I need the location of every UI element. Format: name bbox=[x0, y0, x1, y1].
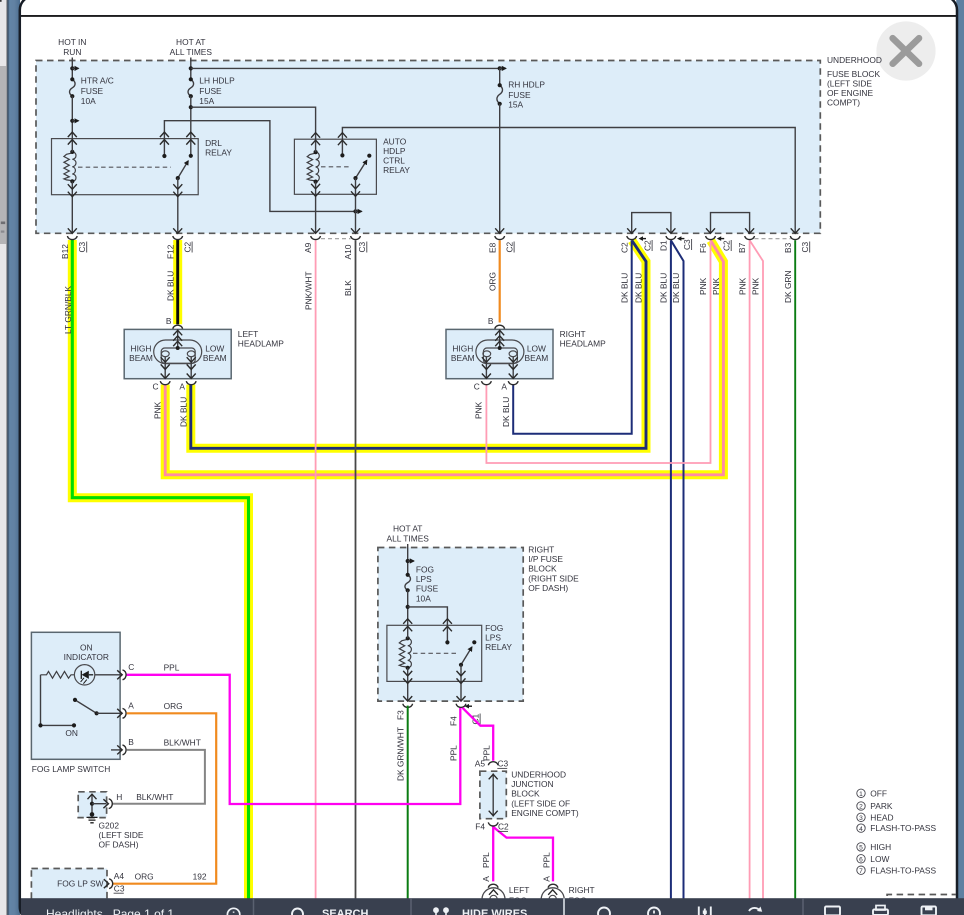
wire RH HDLP fuse vertical bbox=[499, 68, 501, 85]
label C3 bbox=[114, 883, 125, 893]
svg-text:FLASH-TO-PASS: FLASH-TO-PASS bbox=[870, 823, 936, 833]
connector A5/C3 bbox=[475, 759, 509, 769]
high beam bulb bbox=[161, 351, 169, 357]
junction block internal arrow bbox=[489, 774, 498, 817]
svg-text:BEAM: BEAM bbox=[203, 353, 227, 363]
svg-text:UNDERHOOD: UNDERHOOD bbox=[511, 770, 566, 780]
wire ORG from switch A bbox=[113, 713, 216, 883]
label C3 bbox=[800, 241, 810, 252]
B pin stub bbox=[499, 329, 501, 348]
right headlamp inner shell bbox=[483, 348, 517, 363]
svg-text:FOG: FOG bbox=[485, 623, 503, 633]
dashed link A9-A10 bbox=[321, 238, 351, 240]
svg-text:A: A bbox=[501, 382, 507, 392]
svg-text:A: A bbox=[541, 876, 551, 882]
svg-text:RELAY: RELAY bbox=[383, 165, 410, 175]
svg-text:BLK/WHT: BLK/WHT bbox=[164, 737, 201, 747]
connector D1/C3 bbox=[666, 228, 684, 241]
connector arcs below C and A bbox=[160, 381, 170, 385]
left fog lamp bbox=[482, 884, 529, 911]
svg-text:OF DASH): OF DASH) bbox=[528, 583, 568, 593]
svg-text:FLASH-TO-PASS: FLASH-TO-PASS bbox=[870, 865, 936, 875]
svg-text:LPS: LPS bbox=[416, 574, 432, 584]
wire PNK/WHT (A9) bbox=[315, 240, 317, 899]
svg-text:10A: 10A bbox=[416, 593, 431, 603]
branch to relay pin2 bbox=[406, 605, 448, 625]
svg-text:AUTO: AUTO bbox=[383, 136, 407, 146]
svg-text:Headlights Page 1 of 1: Headlights Page 1 of 1 bbox=[46, 907, 174, 915]
svg-text:HOT AT: HOT AT bbox=[176, 37, 205, 47]
label C1 bbox=[470, 713, 480, 724]
svg-text:H: H bbox=[116, 792, 122, 802]
svg-text:DRL: DRL bbox=[205, 138, 222, 148]
svg-text:F4: F4 bbox=[448, 716, 458, 726]
header divider line bbox=[21, 15, 956, 17]
wire PPL switch C loop to F4 bbox=[127, 675, 461, 804]
low beam bulb bbox=[187, 351, 195, 357]
svg-text:FUSE: FUSE bbox=[81, 86, 104, 96]
svg-text:LOW: LOW bbox=[205, 343, 224, 353]
svg-text:ORG: ORG bbox=[135, 872, 154, 882]
left headlamp stadium bbox=[154, 340, 202, 364]
svg-text:5: 5 bbox=[859, 845, 863, 852]
underhood fuse block (dashed box) bbox=[36, 61, 820, 234]
svg-text:B3: B3 bbox=[783, 242, 793, 253]
ON contact branch bbox=[38, 723, 76, 727]
feed to RH fuse: horizontal at y=68.4 bbox=[189, 66, 506, 70]
wire PPL junction to right fog bbox=[494, 827, 553, 881]
svg-text:C: C bbox=[474, 382, 480, 392]
right headlamp box bbox=[446, 329, 553, 378]
svg-text:RUN: RUN bbox=[63, 47, 81, 57]
connector B7 bbox=[745, 228, 755, 239]
item 5 HIGH bbox=[857, 843, 865, 851]
DRL switch arm bbox=[176, 161, 189, 180]
left headlamp inner shell bbox=[161, 348, 195, 363]
svg-text:15A: 15A bbox=[199, 96, 214, 106]
svg-text:INDICATOR: INDICATOR bbox=[64, 652, 109, 662]
connector F6/C2 bbox=[706, 228, 725, 241]
B pin stub bbox=[177, 329, 179, 348]
svg-text:7: 7 bbox=[859, 868, 863, 875]
fuse FOG LPS 10A bbox=[405, 573, 411, 593]
svg-text:C3: C3 bbox=[682, 239, 692, 250]
svg-text:DK BLU: DK BLU bbox=[179, 397, 189, 427]
item 2 PARK bbox=[857, 802, 865, 810]
AUTO output wire to A10 bbox=[355, 178, 357, 233]
svg-text:ALL TIMES: ALL TIMES bbox=[170, 47, 213, 57]
svg-text:RELAY: RELAY bbox=[205, 148, 232, 158]
auto hdlp ctrl relay box bbox=[294, 139, 376, 194]
bottom right partial dashed box bbox=[887, 895, 956, 908]
svg-text:LT GRN/BLK: LT GRN/BLK bbox=[63, 285, 73, 334]
svg-text:PARK: PARK bbox=[870, 801, 893, 811]
svg-text:FUSE: FUSE bbox=[508, 90, 531, 100]
svg-text:4: 4 bbox=[859, 826, 863, 833]
wire ORG (E8 to right headlamp B) bbox=[499, 240, 501, 322]
svg-text:C2: C2 bbox=[619, 242, 629, 253]
wire below HTR fuse to DRL relay bbox=[71, 96, 73, 138]
svg-text:FOG: FOG bbox=[416, 565, 434, 575]
svg-text:SEARCH: SEARCH bbox=[322, 908, 369, 915]
DRL pin3 stub and contact dot bbox=[189, 139, 193, 158]
connector arcs below C and A bbox=[482, 381, 492, 385]
wire PNK hl core bbox=[165, 241, 723, 475]
svg-text:LOW: LOW bbox=[527, 343, 546, 353]
svg-text:PNK: PNK bbox=[152, 401, 162, 419]
wire DK GRN (B3) bbox=[794, 240, 796, 899]
svg-text:PNK: PNK bbox=[751, 277, 761, 295]
svg-text:RIGHT: RIGHT bbox=[528, 545, 554, 555]
left headlamp box bbox=[124, 329, 231, 378]
tap dot+arrow at 120.8 bbox=[70, 119, 78, 123]
connector B12/C3 bbox=[67, 228, 77, 239]
connector F3 bbox=[403, 696, 413, 707]
FOG switch contact dot bbox=[472, 640, 476, 644]
bridge loop C2-D1 bbox=[632, 213, 671, 233]
wire PNK thin pair (B7) bbox=[749, 240, 751, 899]
connector A9 bbox=[311, 228, 321, 239]
wire DK BLU hl core bbox=[191, 241, 646, 449]
AUTO pin2 stub and dot bbox=[340, 139, 344, 157]
sidebar blue strips bbox=[0, 0, 1, 1]
dashed link B7-B3 bbox=[755, 238, 791, 240]
wire PPL junction to left fog bbox=[492, 827, 494, 882]
wire LED to C pin bbox=[95, 674, 122, 676]
DRL output wire to F12 bbox=[177, 178, 179, 233]
wire BLK (A10) bbox=[355, 240, 357, 899]
FOG output wire bbox=[460, 665, 462, 701]
svg-text:PPL: PPL bbox=[448, 745, 458, 761]
wire HOT IN RUN vertical bbox=[71, 58, 73, 81]
svg-text:HIGH: HIGH bbox=[452, 343, 473, 353]
svg-text:F12: F12 bbox=[165, 244, 175, 259]
connector arc above B bbox=[173, 325, 183, 329]
svg-text:DK GRN: DK GRN bbox=[783, 270, 793, 303]
svg-text:RELAY: RELAY bbox=[485, 642, 512, 652]
ON indicator LED circle bbox=[74, 665, 94, 685]
connector E8/C2 bbox=[495, 228, 505, 239]
tap dot+arrow at 68.4 bbox=[70, 66, 78, 70]
svg-text:C3: C3 bbox=[114, 883, 125, 893]
svg-text:E8: E8 bbox=[487, 242, 497, 253]
FOG coil pin wires bbox=[407, 625, 409, 701]
relay box boundary chevrons bbox=[403, 619, 412, 624]
svg-text:HOT IN: HOT IN bbox=[58, 37, 86, 47]
svg-text:C: C bbox=[153, 382, 159, 392]
svg-text:BEAM: BEAM bbox=[525, 353, 549, 363]
svg-text:OFF: OFF bbox=[870, 788, 887, 798]
svg-text:F6: F6 bbox=[698, 243, 708, 253]
connector arc above B bbox=[495, 325, 505, 329]
svg-text:10A: 10A bbox=[81, 96, 96, 106]
item 4 FLASH-TO-PASS bbox=[857, 824, 865, 832]
svg-text:B: B bbox=[128, 737, 134, 747]
svg-text:DK BLU: DK BLU bbox=[634, 273, 644, 303]
wire DK BLU (F12) core bbox=[176, 240, 179, 324]
fuse LH HDLP 15A bbox=[188, 77, 194, 98]
svg-text:B: B bbox=[488, 316, 494, 326]
svg-text:A: A bbox=[179, 382, 185, 392]
wire DK BLU (F12) highlight band bbox=[173, 240, 182, 324]
connector F4/C1 bbox=[456, 696, 472, 708]
connector A10/C3 bbox=[351, 228, 361, 239]
wire DK BLU thin pair (D1/C3) bbox=[670, 240, 672, 899]
AUTO coil bbox=[307, 150, 319, 184]
svg-text:LEFT: LEFT bbox=[238, 329, 258, 339]
label C2 bbox=[504, 241, 514, 252]
svg-text:PNK: PNK bbox=[737, 277, 747, 295]
LED symbol bbox=[82, 671, 89, 679]
wire PPL F4 split to junction block bbox=[463, 708, 494, 761]
tap dot+arrow bbox=[406, 559, 414, 563]
svg-text:PPL: PPL bbox=[481, 852, 491, 868]
svg-text:PPL: PPL bbox=[164, 662, 180, 672]
svg-text:ALL TIMES: ALL TIMES bbox=[387, 534, 430, 544]
left scrollbar strip bbox=[0, 0, 6, 915]
left rail bbox=[40, 675, 42, 726]
DRL coil pin wires bbox=[71, 139, 73, 233]
FOG relay coil bbox=[399, 636, 411, 670]
svg-text:C2: C2 bbox=[721, 240, 731, 251]
svg-text:D1: D1 bbox=[658, 240, 668, 251]
svg-text:(LEFT SIDE: (LEFT SIDE bbox=[99, 830, 144, 840]
wire PNK (headlamp C to F6) highlight band bbox=[165, 241, 723, 475]
fog lps relay box bbox=[387, 625, 482, 681]
ground stub and arrow bbox=[91, 795, 93, 815]
svg-text:UNDERHOOD: UNDERHOOD bbox=[827, 55, 882, 65]
high beam bulb bbox=[483, 351, 491, 357]
right fog lamp bbox=[541, 884, 594, 911]
svg-text:(LEFT SIDE: (LEFT SIDE bbox=[827, 78, 872, 88]
svg-text:HIGH: HIGH bbox=[131, 343, 152, 353]
wire into fog fuse bbox=[407, 544, 409, 576]
wire B pin stub bbox=[111, 749, 122, 751]
svg-text:C2: C2 bbox=[498, 822, 509, 832]
svg-text:DK BLU: DK BLU bbox=[501, 397, 511, 427]
svg-text:C2: C2 bbox=[642, 240, 652, 251]
svg-text:I/P FUSE: I/P FUSE bbox=[528, 554, 563, 564]
svg-text:A5: A5 bbox=[475, 759, 486, 769]
fuse RH HDLP 15A bbox=[497, 83, 503, 106]
DRL dashed actuator line bbox=[78, 166, 171, 168]
svg-text:(LEFT SIDE OF: (LEFT SIDE OF bbox=[511, 798, 570, 808]
indicator resistor zigzag bbox=[41, 671, 75, 678]
connector C2/C2 bbox=[627, 228, 646, 241]
label C3 bbox=[357, 241, 367, 252]
svg-text:FOG LAMP SWITCH: FOG LAMP SWITCH bbox=[32, 764, 110, 774]
svg-text:ON: ON bbox=[80, 643, 93, 653]
svg-text:A: A bbox=[128, 701, 134, 711]
low beam bulb bbox=[509, 351, 517, 357]
wire below LH fuse to DRL relay pin bbox=[190, 96, 192, 138]
AUTO dashed actuator line bbox=[321, 166, 351, 168]
svg-text:RIGHT: RIGHT bbox=[560, 329, 586, 339]
svg-text:ON: ON bbox=[65, 728, 78, 738]
svg-text:DK BLU: DK BLU bbox=[619, 273, 629, 303]
wire DK BLU thin (C2 to right headlamp A) bbox=[513, 240, 632, 433]
svg-text:3: 3 bbox=[859, 815, 863, 822]
wire DK GRN/WHT (F3 down) bbox=[407, 706, 409, 899]
svg-text:BLOCK: BLOCK bbox=[528, 564, 557, 574]
svg-text:B12: B12 bbox=[60, 244, 70, 259]
svg-text:C3: C3 bbox=[498, 759, 509, 769]
svg-text:BLK/WHT: BLK/WHT bbox=[136, 792, 173, 802]
svg-text:C3: C3 bbox=[800, 241, 810, 252]
svg-text:HDLP: HDLP bbox=[383, 146, 406, 156]
svg-text:BEAM: BEAM bbox=[451, 353, 475, 363]
DRL relay box bbox=[52, 139, 199, 195]
wire DRL pin2 feed loop bbox=[164, 121, 355, 212]
FOG dashed actuator line bbox=[413, 652, 456, 654]
label C2 bbox=[182, 241, 192, 252]
ground bars bbox=[87, 817, 98, 822]
svg-text:PNK: PNK bbox=[698, 277, 708, 295]
label C2 bbox=[721, 240, 731, 251]
item 6 LOW bbox=[857, 855, 865, 863]
svg-text:C: C bbox=[128, 662, 134, 672]
svg-text:LOW: LOW bbox=[870, 854, 889, 864]
bridge loop F6-B7 bbox=[711, 213, 750, 233]
svg-text:(RIGHT SIDE: (RIGHT SIDE bbox=[528, 573, 579, 583]
bulb output stubs bbox=[165, 357, 191, 379]
item 1 OFF bbox=[857, 789, 865, 797]
AUTO coil pin wires bbox=[315, 139, 317, 233]
svg-text:B7: B7 bbox=[737, 242, 747, 253]
svg-text:DK BLU: DK BLU bbox=[659, 273, 669, 303]
svg-text:A10: A10 bbox=[343, 244, 353, 259]
svg-text:BLOCK: BLOCK bbox=[511, 789, 540, 799]
junction dot+arrow on A10 wire bbox=[353, 209, 361, 213]
wire HOT AT ALL TIMES vertical bbox=[190, 58, 192, 81]
right headlamp stadium bbox=[476, 340, 524, 364]
wire BLK/WHT from switch B bbox=[112, 750, 205, 804]
svg-text:HEADLAMP: HEADLAMP bbox=[238, 339, 284, 349]
svg-text:C3: C3 bbox=[357, 241, 367, 252]
svg-text:BEAM: BEAM bbox=[129, 353, 153, 363]
wire PNK thin (F6 to right headlamp C) bbox=[486, 240, 710, 463]
wire RH fuse down to E8 bbox=[499, 104, 501, 233]
svg-text:LH HDLP: LH HDLP bbox=[199, 76, 235, 86]
svg-text:PNK/WHT: PNK/WHT bbox=[303, 271, 313, 310]
AUTO switch arm bbox=[353, 160, 366, 180]
pin chevrons and arcs C A B bbox=[117, 670, 122, 679]
svg-text:HOT AT: HOT AT bbox=[393, 523, 422, 533]
svg-text:C2: C2 bbox=[504, 241, 514, 252]
G202 ground box (dashed) bbox=[78, 792, 106, 818]
connector F12/C2 bbox=[173, 228, 183, 239]
svg-text:HEADLAMP: HEADLAMP bbox=[560, 339, 606, 349]
fuse HTR A/C 10A bbox=[70, 77, 76, 98]
svg-text:DK BLU: DK BLU bbox=[165, 271, 175, 301]
wire DK BLU (headlamp A to C2) highlight band bbox=[191, 241, 646, 449]
svg-text:PNK: PNK bbox=[474, 401, 484, 419]
svg-text:RH HDLP: RH HDLP bbox=[508, 80, 545, 90]
svg-text:BLK: BLK bbox=[343, 280, 353, 296]
svg-text:G202: G202 bbox=[99, 821, 120, 831]
svg-text:FOG LP SW: FOG LP SW bbox=[57, 879, 103, 889]
wire AUTO pin2 to B3 bbox=[342, 128, 795, 234]
item 3 HEAD bbox=[857, 813, 865, 821]
AUTO switch contact dot bbox=[367, 154, 371, 158]
item 7 FLASH-TO-PASS bbox=[857, 866, 865, 874]
svg-text:HEAD: HEAD bbox=[870, 812, 893, 822]
connector B3/C3 bbox=[790, 228, 800, 239]
fog lamp switch box bbox=[31, 632, 120, 759]
svg-text:ORG: ORG bbox=[487, 272, 497, 291]
FOG pin2 stub and dot bbox=[445, 625, 449, 644]
svg-text:DK GRN/WHT: DK GRN/WHT bbox=[395, 727, 405, 781]
switch arm bbox=[73, 698, 99, 716]
svg-text:B: B bbox=[166, 316, 172, 326]
svg-text:A9: A9 bbox=[303, 242, 313, 253]
svg-text:1: 1 bbox=[859, 791, 863, 798]
svg-text:PPL: PPL bbox=[541, 852, 551, 868]
svg-text:FUSE: FUSE bbox=[416, 584, 439, 594]
svg-text:HIGH: HIGH bbox=[870, 842, 891, 852]
svg-text:JUNCTION: JUNCTION bbox=[511, 779, 553, 789]
wire LT GRN/BLK core bbox=[72, 240, 248, 899]
DRL pin2 stub and contact dot bbox=[162, 139, 166, 158]
svg-text:CTRL: CTRL bbox=[383, 156, 405, 166]
svg-text:C2: C2 bbox=[182, 241, 192, 252]
svg-text:2: 2 bbox=[859, 804, 863, 811]
svg-text:6: 6 bbox=[859, 857, 863, 864]
svg-text:C3: C3 bbox=[77, 241, 87, 252]
svg-text:COMPT): COMPT) bbox=[827, 98, 860, 108]
svg-text:ENGINE COMPT): ENGINE COMPT) bbox=[511, 808, 579, 818]
svg-text:A4: A4 bbox=[114, 871, 125, 881]
svg-text:FUSE: FUSE bbox=[199, 86, 222, 96]
svg-text:F3: F3 bbox=[395, 710, 405, 720]
svg-text:PNK: PNK bbox=[711, 277, 721, 295]
label C3 bbox=[682, 239, 692, 250]
right I/P fuse block (dashed box) bbox=[378, 548, 523, 702]
svg-text:OF ENGINE: OF ENGINE bbox=[827, 88, 873, 98]
wire dot to H pin bbox=[92, 803, 107, 805]
label C2 bbox=[642, 240, 652, 251]
wire fuse to relay coil bbox=[407, 590, 409, 625]
svg-text:HIDE WIRES: HIDE WIRES bbox=[462, 908, 527, 915]
label C3 bbox=[77, 241, 87, 252]
DRL coil bbox=[64, 150, 76, 184]
svg-text:ORG: ORG bbox=[164, 701, 183, 711]
connector F4/C2 bbox=[475, 822, 509, 832]
svg-text:A: A bbox=[481, 876, 491, 882]
svg-text:OF DASH): OF DASH) bbox=[99, 840, 139, 850]
fog lp sw box (dashed) bbox=[31, 869, 107, 902]
svg-text:HTR A/C: HTR A/C bbox=[81, 76, 114, 86]
svg-text:LPS: LPS bbox=[485, 633, 501, 643]
svg-text:LEFT: LEFT bbox=[509, 885, 529, 895]
wire LT GRN/BLK highlight band bbox=[72, 240, 248, 899]
bulb output stubs bbox=[486, 357, 513, 379]
svg-text:RIGHT: RIGHT bbox=[569, 885, 595, 895]
svg-text:FUSE BLOCK: FUSE BLOCK bbox=[827, 69, 880, 79]
svg-text:192: 192 bbox=[193, 872, 207, 882]
svg-text:15A: 15A bbox=[508, 99, 523, 109]
branch from LH fuse bottom to AUTO relay coil bbox=[189, 105, 316, 139]
FOG switch arm bbox=[459, 647, 472, 667]
svg-text:F4: F4 bbox=[475, 822, 485, 832]
wire arm to A pin bbox=[97, 712, 122, 714]
underhood junction block (dashed) bbox=[480, 771, 506, 819]
svg-text:DK BLU: DK BLU bbox=[671, 273, 681, 303]
